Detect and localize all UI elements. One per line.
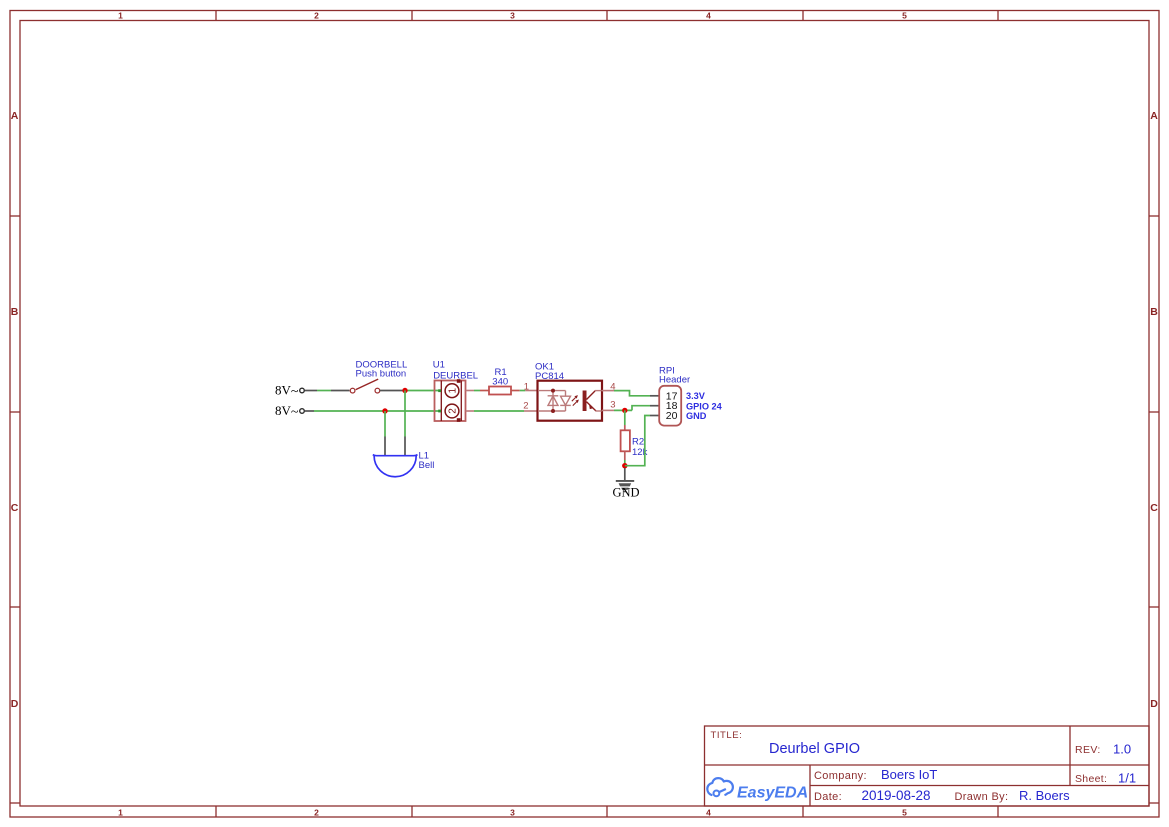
connector U1 body <box>435 379 466 422</box>
wire terminal2 stub <box>305 410 314 412</box>
svg-text:1: 1 <box>118 10 123 20</box>
junction node gnd <box>622 463 627 468</box>
EasyEDA logo <box>707 778 808 801</box>
wire OK1 pin1 stub <box>525 390 538 392</box>
wire R2 to gnd junction <box>624 460 626 468</box>
wire switch right stub <box>380 390 404 392</box>
header RPI body <box>659 386 681 426</box>
svg-text:20: 20 <box>666 410 678 422</box>
svg-text:D: D <box>11 698 19 710</box>
resistor R2 lead top <box>624 425 626 430</box>
svg-text:GPIO 24: GPIO 24 <box>686 401 723 411</box>
frame column labels bottom <box>118 808 907 818</box>
switch SW contact right <box>375 388 380 393</box>
junction node pin3 <box>622 408 627 413</box>
wire net top right <box>404 390 441 392</box>
OK1 led1 (up) <box>548 396 559 406</box>
wire junction to header 18 <box>632 406 650 411</box>
junction node bottom <box>382 408 387 413</box>
connector U1 pin1 circle <box>445 384 459 398</box>
resistor R2 body <box>621 430 630 451</box>
svg-text:1: 1 <box>118 808 123 818</box>
wire U1 pin1 stub <box>466 390 475 392</box>
svg-text:A: A <box>1150 110 1158 122</box>
svg-text:8V~: 8V~ <box>275 403 299 420</box>
resistor R2 lead bottom <box>624 451 626 460</box>
svg-text:GND: GND <box>686 411 707 421</box>
junction node top <box>402 388 407 393</box>
svg-text:3: 3 <box>510 808 515 818</box>
OK1 input rails <box>538 391 566 411</box>
bell pin left <box>384 437 386 456</box>
gnd pin wire <box>624 468 626 481</box>
svg-text:REV:: REV: <box>1075 744 1101 756</box>
wire pin4 to header 17 <box>614 391 650 396</box>
wire bell drop left green <box>384 411 386 437</box>
svg-text:4: 4 <box>706 808 711 818</box>
OK1 node dots <box>551 389 555 413</box>
bell L1 body <box>373 455 418 477</box>
header pin18 stub <box>650 405 660 407</box>
ground symbol <box>616 480 634 493</box>
title block <box>705 726 1150 806</box>
wire OK1 pin4 stub <box>602 390 614 392</box>
svg-text:Sheet:: Sheet: <box>1075 773 1107 785</box>
svg-text:C: C <box>1150 502 1158 514</box>
svg-text:TITLE:: TITLE: <box>711 730 743 741</box>
svg-text:2: 2 <box>314 808 319 818</box>
svg-text:EasyEDA: EasyEDA <box>737 785 808 802</box>
wire net top left <box>317 390 331 392</box>
svg-text:1: 1 <box>524 382 529 393</box>
svg-text:8V~: 8V~ <box>275 383 299 400</box>
OK1 phototransistor <box>583 391 602 412</box>
svg-text:A: A <box>11 110 19 122</box>
switch SW lever <box>356 379 379 390</box>
svg-text:DEURBEL: DEURBEL <box>433 370 478 381</box>
switch SW contact left <box>350 388 355 393</box>
wire green R1 right <box>520 390 526 392</box>
wire gnd junction to header 20 <box>625 416 650 466</box>
resistor R1 body <box>489 387 511 395</box>
connector U1 pin2 circle <box>445 404 459 418</box>
svg-text:D: D <box>1150 698 1158 710</box>
svg-text:B: B <box>11 306 19 318</box>
wire terminal1 stub <box>305 390 317 392</box>
svg-text:Push button: Push button <box>356 369 407 380</box>
terminal pin top <box>300 388 305 393</box>
svg-text:C: C <box>11 502 19 514</box>
svg-text:Company:: Company: <box>814 770 867 782</box>
frame row labels right <box>1150 110 1158 710</box>
svg-text:3: 3 <box>610 400 615 411</box>
svg-text:2: 2 <box>448 408 459 414</box>
svg-text:U1: U1 <box>433 360 445 371</box>
wire green R1 left <box>474 390 480 392</box>
resistor R1 lead right <box>511 390 520 392</box>
optocoupler OK1 box <box>538 381 603 421</box>
svg-text:3.3V: 3.3V <box>686 391 706 401</box>
svg-text:GND: GND <box>613 486 640 500</box>
wire OK1 pin2 stub <box>524 410 538 412</box>
svg-text:2019-08-28: 2019-08-28 <box>862 788 931 803</box>
svg-text:Drawn By:: Drawn By: <box>955 791 1009 803</box>
svg-text:Bell: Bell <box>419 460 435 471</box>
svg-text:PC814: PC814 <box>535 371 564 382</box>
frame column labels top <box>118 10 907 20</box>
svg-text:4: 4 <box>706 10 711 20</box>
header pin20 stub <box>650 415 660 417</box>
terminal pin bottom <box>300 409 305 414</box>
svg-text:1/1: 1/1 <box>1118 771 1136 786</box>
wire OK1 pin3 stub <box>602 409 614 411</box>
svg-text:B: B <box>1150 306 1158 318</box>
frame row labels left <box>11 110 19 710</box>
svg-text:Header: Header <box>659 375 690 386</box>
OK1 light arrows <box>572 395 579 406</box>
wire junction down to R2 <box>624 410 626 425</box>
svg-text:340: 340 <box>492 377 508 388</box>
svg-text:2: 2 <box>523 401 528 412</box>
svg-text:1.0: 1.0 <box>1113 742 1131 757</box>
svg-text:Boers IoT: Boers IoT <box>881 767 937 782</box>
svg-text:Deurbel GPIO: Deurbel GPIO <box>769 741 860 757</box>
svg-text:R. Boers: R. Boers <box>1019 788 1070 803</box>
wire net bottom <box>314 410 441 412</box>
svg-text:3: 3 <box>510 10 515 20</box>
svg-text:2: 2 <box>314 10 319 20</box>
wire pin3 to junction <box>614 409 632 411</box>
svg-text:1: 1 <box>448 387 459 393</box>
connector U1 pin dots <box>438 389 441 412</box>
resistor R1 lead left <box>480 390 489 392</box>
svg-text:Date:: Date: <box>814 791 842 803</box>
svg-text:5: 5 <box>902 10 907 20</box>
wire U1 pin2 stub <box>466 410 475 412</box>
svg-text:5: 5 <box>902 808 907 818</box>
wire bell drop right green <box>404 391 406 437</box>
bell pin right <box>404 437 406 456</box>
header pin17 stub <box>650 395 660 397</box>
wire switch left stub <box>331 390 350 392</box>
OK1 led2 (down) <box>560 396 571 405</box>
wire green row2 to OK1 <box>474 410 524 412</box>
